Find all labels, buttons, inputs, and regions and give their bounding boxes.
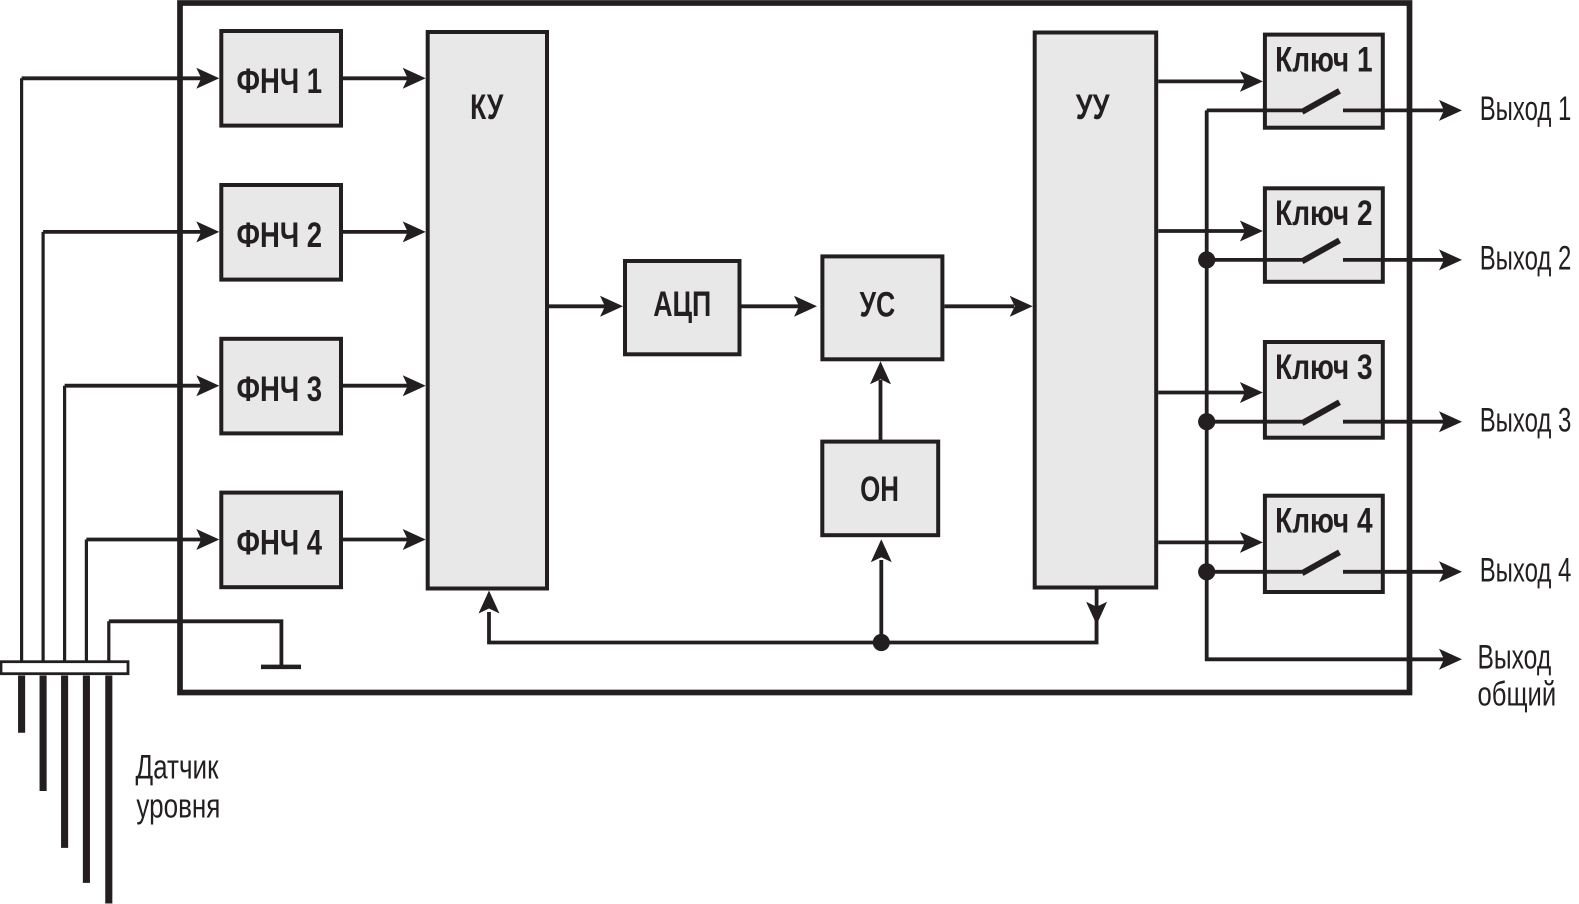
- svg-text:УУ: УУ: [1076, 88, 1111, 127]
- svg-text:Ключ 2: Ключ 2: [1275, 194, 1373, 233]
- svg-text:Выход 3: Выход 3: [1480, 402, 1572, 440]
- svg-text:Выход 4: Выход 4: [1480, 552, 1572, 590]
- svg-text:ФНЧ 3: ФНЧ 3: [237, 370, 323, 409]
- svg-text:Датчик: Датчик: [136, 749, 220, 787]
- svg-text:КУ: КУ: [470, 88, 504, 127]
- svg-text:ФНЧ 4: ФНЧ 4: [237, 524, 323, 563]
- svg-text:Выход 1: Выход 1: [1480, 90, 1572, 128]
- svg-text:Выход: Выход: [1478, 639, 1552, 677]
- svg-text:ОН: ОН: [860, 470, 899, 509]
- svg-text:Ключ 4: Ключ 4: [1275, 502, 1373, 541]
- svg-text:АЦП: АЦП: [653, 285, 711, 324]
- svg-text:Ключ 1: Ключ 1: [1275, 40, 1373, 79]
- svg-text:ФНЧ 2: ФНЧ 2: [237, 216, 323, 255]
- svg-text:Ключ 3: Ключ 3: [1275, 348, 1373, 387]
- svg-text:общий: общий: [1478, 676, 1557, 714]
- svg-text:уровня: уровня: [136, 787, 220, 825]
- svg-text:Выход 2: Выход 2: [1480, 240, 1572, 278]
- svg-text:УС: УС: [860, 286, 896, 325]
- svg-text:ФНЧ 1: ФНЧ 1: [237, 62, 323, 101]
